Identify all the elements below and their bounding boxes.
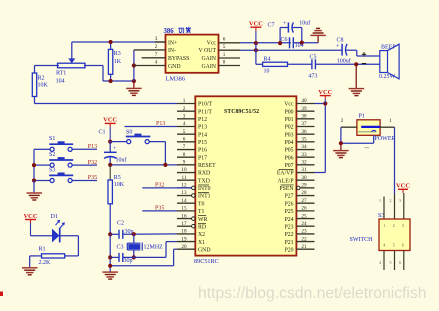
pin 28 P27	[285, 190, 315, 200]
wire R1 to gnd	[30, 256, 42, 267]
svg-text:36: 36	[301, 129, 307, 135]
svg-text:2: 2	[393, 223, 395, 228]
svg-text:T0: T0	[198, 201, 205, 207]
pin 17 RD	[177, 221, 206, 231]
svg-text:R1: R1	[39, 247, 46, 253]
svg-text:104: 104	[56, 79, 65, 85]
wire pin3 net top	[72, 41, 166, 43]
svg-text:24: 24	[301, 221, 307, 227]
svg-text:5: 5	[393, 242, 395, 247]
ground P1	[333, 143, 349, 157]
node C1 bottom	[108, 163, 112, 167]
speaker BEEP 0.25W	[362, 44, 399, 80]
svg-text:6: 6	[402, 242, 404, 247]
svg-text:R2: R2	[38, 76, 45, 82]
pin 19 X1	[177, 236, 205, 246]
resistor R2	[32, 66, 48, 104]
tiny artifact mark	[365, 147, 370, 149]
wire button rail	[33, 149, 35, 180]
svg-text:4: 4	[183, 121, 186, 127]
pin 1 P1	[380, 118, 394, 127]
power VCC top	[249, 20, 263, 43]
button S1	[34, 136, 97, 151]
svg-text:P13: P13	[156, 121, 165, 127]
svg-text:VCC: VCC	[103, 117, 117, 124]
pin 14 T0	[177, 198, 205, 208]
svg-text:GAIN: GAIN	[202, 64, 217, 70]
svg-text:10uf: 10uf	[116, 157, 127, 164]
svg-text:R4: R4	[264, 56, 271, 62]
svg-text:3: 3	[183, 114, 186, 120]
node pin5 R4 branch	[254, 48, 258, 52]
svg-text:IN+: IN+	[168, 40, 177, 46]
node C7 right	[300, 41, 304, 45]
pin 15 T1	[177, 206, 205, 216]
svg-text:C7: C7	[268, 22, 275, 28]
svg-text:473: 473	[309, 74, 318, 80]
wire RT1 right	[84, 66, 111, 82]
resistor R3 1K	[108, 42, 121, 81]
svg-text:S2: S2	[49, 152, 55, 158]
svg-text:3: 3	[402, 223, 404, 228]
node C3 left	[108, 255, 112, 259]
pin 2 stub	[134, 44, 166, 50]
pin 36 P03	[285, 129, 315, 139]
pin 21 P20	[285, 244, 315, 254]
svg-text:P27: P27	[285, 194, 294, 200]
svg-text:LM386: LM386	[166, 76, 186, 83]
svg-text:Vcc: Vcc	[284, 102, 294, 108]
wire VCC branch down to R4	[256, 43, 263, 64]
svg-text:12MHZ: 12MHZ	[144, 245, 164, 251]
svg-text:S1: S1	[49, 136, 55, 142]
svg-text:C2: C2	[117, 220, 124, 226]
svg-text:20: 20	[181, 244, 187, 250]
pin 9 RESET	[177, 160, 216, 170]
pin 26 P25	[285, 206, 315, 216]
svg-text:11: 11	[182, 175, 187, 181]
svg-text:GND: GND	[168, 64, 181, 70]
svg-text:P20: P20	[285, 247, 294, 253]
svg-text:P12: P12	[198, 117, 207, 123]
node crystal bottom	[132, 255, 136, 259]
node pin40	[323, 101, 327, 105]
svg-text:https://blog.csdn.net/eletroni: https://blog.csdn.net/eletronicfish	[198, 285, 426, 302]
svg-text:X1: X1	[198, 240, 205, 246]
svg-text:P1: P1	[359, 113, 365, 119]
pin wires S3 top	[379, 193, 404, 219]
svg-text:7: 7	[183, 144, 186, 150]
svg-text:VCC: VCC	[23, 213, 37, 220]
wire LED to R1	[61, 236, 79, 256]
svg-text:BYPASS: BYPASS	[168, 56, 189, 62]
svg-text:RT1: RT1	[56, 71, 66, 77]
svg-text:8: 8	[223, 60, 226, 66]
svg-text:10K: 10K	[114, 182, 125, 188]
svg-text:V OUT: V OUT	[199, 48, 217, 54]
svg-text:8: 8	[183, 152, 186, 158]
svg-text:40: 40	[301, 98, 307, 104]
pin 18 X2	[177, 229, 205, 239]
svg-text:4: 4	[383, 242, 385, 247]
svg-text:RXD: RXD	[198, 171, 210, 177]
svg-text:BEEP: BEEP	[381, 44, 396, 50]
svg-text:0.25W: 0.25W	[379, 74, 396, 80]
pin 2 P11/T	[177, 106, 212, 116]
capacitor C6 104	[281, 37, 304, 49]
svg-text:P13: P13	[198, 125, 207, 131]
svg-text:10: 10	[264, 69, 270, 75]
svg-text:9: 9	[183, 160, 186, 166]
svg-text:GND: GND	[198, 247, 211, 253]
pin 23 P22	[285, 229, 315, 239]
svg-text:26: 26	[301, 206, 307, 212]
ground crystal	[102, 272, 118, 279]
svg-text:19: 19	[181, 236, 187, 242]
svg-text:33: 33	[301, 152, 307, 158]
svg-text:89C51RC: 89C51RC	[194, 258, 219, 265]
svg-text:32: 32	[301, 160, 307, 166]
pin 31 EA/VP	[277, 167, 315, 177]
svg-text:P14: P14	[198, 132, 207, 138]
svg-text:1: 1	[379, 198, 381, 203]
svg-text:PSEN: PSEN	[279, 186, 294, 192]
capacitor C1 10uf	[99, 129, 127, 165]
svg-text:5: 5	[223, 44, 226, 50]
svg-text:P11/T: P11/T	[198, 109, 212, 115]
svg-text:3: 3	[399, 198, 401, 203]
wire pin40 VCC	[315, 104, 326, 173]
node gnd junction	[132, 79, 136, 83]
wire IN- vertical	[133, 50, 135, 81]
svg-text:X2: X2	[198, 232, 205, 238]
button S3	[34, 168, 97, 183]
pin 13 INT1	[177, 190, 211, 200]
svg-text:P02: P02	[285, 125, 294, 131]
svg-text:21: 21	[301, 244, 307, 250]
svg-text:VCC: VCC	[396, 183, 410, 190]
node S0 reset junction	[163, 163, 167, 167]
svg-text:6: 6	[399, 260, 401, 265]
svg-text:P06: P06	[285, 155, 294, 161]
wire P1 pin1 down	[394, 127, 396, 194]
power VCC reset	[103, 117, 117, 142]
svg-text:P01: P01	[285, 117, 294, 123]
svg-text:1K: 1K	[114, 59, 122, 65]
svg-text:1: 1	[183, 98, 186, 104]
pin 3 stub	[155, 36, 166, 42]
pin 35 P04	[285, 137, 315, 147]
svg-text:2.2K: 2.2K	[39, 260, 52, 266]
resistor R1 2.2K	[39, 247, 65, 267]
pin 7 stub	[142, 52, 166, 58]
pin 40 Vcc	[284, 98, 314, 108]
svg-text:P10/T: P10/T	[198, 102, 213, 108]
pin 4 stub	[134, 60, 166, 66]
svg-text:P22: P22	[285, 232, 294, 238]
svg-text:P05: P05	[285, 148, 294, 154]
pin 20 GND	[177, 244, 211, 254]
pin 16 WR	[177, 213, 207, 223]
svg-text:C3: C3	[117, 245, 124, 251]
svg-text:13: 13	[181, 190, 187, 196]
op-amp U? LM386	[164, 27, 219, 83]
node speaker minus gnd	[354, 62, 358, 66]
svg-text:D1: D1	[51, 214, 58, 220]
svg-text:5: 5	[183, 129, 186, 135]
svg-text:P26: P26	[285, 201, 294, 207]
node crystal top	[132, 232, 136, 236]
wire pin20 gnd	[110, 249, 177, 266]
pin 8 stub	[219, 60, 241, 66]
svg-text:31: 31	[301, 167, 307, 173]
svg-text:+: +	[336, 43, 340, 50]
power VCC led	[23, 213, 37, 236]
pin 10 RXD	[177, 167, 210, 177]
svg-text:38: 38	[301, 114, 307, 120]
wire C8 to speaker plus	[346, 50, 380, 56]
svg-text:30p: 30p	[124, 258, 133, 264]
pin 7 P16	[177, 144, 207, 154]
pin wires S3 bottom	[379, 251, 404, 271]
svg-text:4: 4	[155, 60, 158, 66]
node C7 left	[278, 41, 282, 45]
svg-text:P17: P17	[198, 155, 207, 161]
ground R1	[22, 268, 38, 275]
pin 24 P23	[285, 221, 315, 231]
svg-text:22: 22	[301, 236, 307, 242]
connector P1 POWER	[357, 113, 396, 142]
svg-text:P21: P21	[285, 240, 294, 246]
wire R4 to C5	[288, 63, 312, 65]
svg-text:P15: P15	[198, 140, 207, 146]
pin 1 stub	[219, 52, 241, 58]
pin 39 P00	[285, 106, 315, 116]
wire C5 to speaker	[315, 63, 379, 65]
capacitor C3 30p	[110, 245, 132, 264]
crystal Y1 12MHZ	[127, 234, 163, 257]
svg-text:10uf: 10uf	[299, 20, 310, 27]
svg-text:VCC: VCC	[318, 89, 332, 96]
svg-text:P23: P23	[285, 224, 294, 230]
switch S3 body	[379, 219, 410, 251]
svg-text:1: 1	[389, 118, 392, 124]
button S0	[110, 129, 165, 165]
svg-text:2: 2	[390, 198, 392, 203]
svg-text:ALE/P: ALE/P	[277, 178, 293, 184]
ground top right inverted	[310, 28, 326, 42]
svg-text:6: 6	[223, 37, 226, 43]
svg-text:35: 35	[301, 137, 307, 143]
node P1 gnd	[339, 141, 343, 145]
svg-text:S3: S3	[49, 168, 55, 174]
svg-text:2: 2	[183, 106, 186, 112]
svg-text:P25: P25	[285, 209, 294, 215]
wire pin1 to R2	[35, 103, 178, 105]
svg-text:10: 10	[181, 167, 187, 173]
wire R2 top to RT1	[35, 65, 60, 67]
wire reset net pin9	[110, 164, 177, 166]
svg-text:SWITCH: SWITCH	[350, 237, 374, 243]
capacitor C5 473	[309, 55, 318, 80]
svg-text:STC89C51/52: STC89C51/52	[224, 109, 259, 115]
wire P32 net pin12	[142, 187, 191, 189]
node S3 rail	[32, 178, 36, 182]
svg-text:34: 34	[301, 144, 307, 150]
svg-text:GAIN: GAIN	[202, 56, 217, 62]
node C1 top	[108, 140, 112, 144]
button S2	[34, 152, 97, 167]
svg-text:P07: P07	[285, 163, 294, 169]
node VCC pin6	[254, 41, 258, 45]
pin 22 P21	[285, 236, 315, 246]
svg-text:C1: C1	[99, 129, 106, 135]
wire VCC to LED	[31, 235, 53, 237]
pin 6 P15	[177, 137, 207, 147]
pin 12 INT0	[177, 183, 211, 193]
svg-text:S3: S3	[378, 213, 384, 219]
svg-text:IN-: IN-	[168, 48, 176, 54]
svg-text:17: 17	[181, 221, 187, 227]
svg-text:T1: T1	[198, 209, 205, 215]
wire P1 pole return	[341, 135, 374, 143]
svg-text:POWER: POWER	[375, 136, 396, 142]
svg-text:29: 29	[301, 183, 307, 189]
pin 38 P01	[285, 114, 315, 124]
svg-text:23: 23	[301, 229, 307, 235]
node R3 top	[109, 40, 113, 44]
svg-text:P35: P35	[155, 206, 164, 212]
svg-text:3: 3	[155, 36, 158, 42]
mcu U? STC89C51/52	[194, 96, 296, 265]
pin 37 P02	[285, 121, 315, 131]
pin 34 P05	[285, 144, 315, 154]
svg-text:100uf: 100uf	[337, 57, 351, 64]
pin 5 stub	[219, 44, 241, 50]
svg-text:1: 1	[383, 223, 385, 228]
capacitor C7 10uf	[268, 20, 311, 43]
svg-text:P32: P32	[155, 183, 164, 189]
pin 8 P17	[177, 152, 207, 162]
svg-text:15: 15	[181, 206, 187, 212]
svg-text:VCC: VCC	[249, 20, 263, 27]
svg-text:S0: S0	[126, 129, 132, 135]
svg-text:+: +	[283, 20, 287, 27]
resistor R5 10K	[108, 165, 125, 234]
pin 4 P13	[177, 121, 207, 131]
svg-text:WR: WR	[198, 217, 207, 223]
svg-text:P24: P24	[285, 217, 294, 223]
pin 11 TXD	[177, 175, 210, 185]
wire P13 net pin4	[125, 126, 178, 128]
svg-text:4: 4	[379, 260, 381, 265]
svg-text:6: 6	[183, 137, 186, 143]
wire bottom to gnd	[111, 80, 134, 82]
svg-text:R3: R3	[114, 51, 121, 57]
svg-text:P16: P16	[198, 148, 207, 154]
pin 2 P1	[341, 118, 357, 127]
svg-text:1: 1	[223, 52, 226, 58]
svg-text:2: 2	[155, 44, 158, 50]
capacitor C2 30p	[110, 220, 133, 238]
red edge fragment	[0, 292, 3, 297]
switch S3 SWITCH	[350, 213, 385, 243]
pin 1 P10/T	[177, 98, 213, 108]
wire pin6 net	[240, 42, 318, 44]
potentiometer RT1 104	[56, 42, 85, 85]
svg-text:C5: C5	[310, 55, 317, 61]
svg-text:16: 16	[181, 213, 187, 219]
ground speaker	[349, 64, 365, 95]
power VCC switch	[396, 183, 410, 193]
capacitor C8 100uf	[336, 38, 351, 65]
pin 3 P12	[177, 114, 207, 124]
svg-text:27: 27	[301, 198, 307, 204]
svg-text:37: 37	[301, 121, 307, 127]
pin 30 ALE/P	[277, 175, 314, 185]
svg-text:P04: P04	[285, 140, 294, 146]
svg-text:10K: 10K	[38, 83, 49, 89]
pin 32 P07	[285, 160, 315, 170]
svg-text:30: 30	[301, 175, 307, 181]
svg-text:P35: P35	[88, 175, 97, 181]
svg-text:EA/VP: EA/VP	[277, 171, 294, 177]
svg-text:RESET: RESET	[198, 163, 216, 169]
wire pin5 net	[240, 49, 342, 51]
wire P1 pin2 down	[340, 127, 342, 143]
svg-text:TXD: TXD	[198, 178, 210, 184]
node C2 left	[108, 232, 112, 236]
ground buttons	[27, 181, 43, 201]
svg-text:R5: R5	[114, 175, 121, 181]
svg-text:5: 5	[390, 260, 392, 265]
pin 6 stub	[219, 37, 241, 43]
wire C rail	[109, 234, 111, 271]
svg-text:INT0: INT0	[198, 186, 211, 192]
svg-text:C6: C6	[281, 37, 288, 43]
svg-text:P32: P32	[88, 160, 97, 166]
power VCC mcu	[318, 89, 332, 104]
pin 29 PSEN	[279, 183, 314, 193]
resistor R4 10	[263, 56, 288, 74]
svg-text:P13: P13	[88, 144, 97, 150]
svg-text:14: 14	[181, 198, 187, 204]
svg-text:18: 18	[181, 229, 187, 235]
wire P35 net pin15	[142, 210, 177, 212]
svg-text:28: 28	[301, 190, 307, 196]
wire C3 to pin19	[123, 242, 177, 258]
svg-text:7: 7	[155, 52, 158, 58]
svg-text:RD: RD	[198, 224, 206, 230]
svg-text:386: 386	[164, 28, 175, 35]
wire C2 to pin18	[123, 233, 177, 235]
pin 33 P06	[285, 152, 315, 162]
node S2 rail	[32, 163, 36, 167]
svg-text:Vcc: Vcc	[207, 40, 217, 46]
node pin20 rail	[108, 264, 112, 268]
svg-text:P00: P00	[285, 109, 294, 115]
svg-text:P03: P03	[285, 132, 294, 138]
pin 5 P14	[177, 129, 207, 139]
node pin4 junction	[132, 63, 136, 67]
pin 25 P24	[285, 213, 315, 223]
led D1	[51, 214, 66, 243]
node R3 bottom	[109, 79, 113, 83]
ground LM386	[126, 81, 141, 95]
svg-text:39: 39	[301, 106, 307, 112]
svg-text:25: 25	[301, 213, 307, 219]
svg-text:INT1: INT1	[198, 194, 211, 200]
